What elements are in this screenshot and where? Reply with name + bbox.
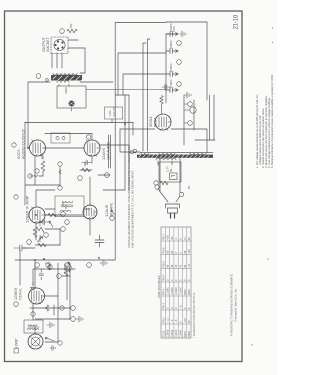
svg-text:PIN 2: PIN 2 [162, 302, 165, 309]
svg-text:SPKR: SPKR [64, 87, 68, 94]
svg-text:455: 455 [65, 204, 68, 209]
svg-text:35AC: 35AC [188, 289, 191, 295]
svg-text:5. Nominal tolerance of compon: 5. Nominal tolerance of component values… [270, 74, 274, 168]
svg-text:250: 250 [61, 201, 65, 206]
svg-text:PIN 5: PIN 5 [162, 261, 165, 268]
svg-text:35W4: 35W4 [148, 116, 153, 127]
svg-text:3.3MEG: 3.3MEG [63, 263, 67, 273]
svg-text:−6.5: −6.5 [184, 318, 187, 323]
svg-text:470K: 470K [40, 153, 44, 159]
svg-text:12.6AC: 12.6AC [175, 287, 178, 295]
svg-text:12AU6: 12AU6 [104, 204, 109, 217]
svg-text:12.6AC: 12.6AC [180, 287, 183, 295]
svg-text:VOLTAGE READINGS TAKEN WITH VT: VOLTAGE READINGS TAKEN WITH VTVM FROM SO… [127, 145, 131, 248]
svg-text:TUBE: TUBE [162, 330, 165, 337]
svg-text:560: 560 [69, 23, 73, 28]
svg-text:LOOP: LOOP [15, 338, 19, 348]
svg-text:50AC: 50AC [184, 289, 187, 295]
svg-text:PIN 1: PIN 1 [162, 316, 165, 323]
svg-text:PIN 4: PIN 4 [162, 274, 165, 281]
svg-text:SOCKET: SOCKET [46, 36, 50, 52]
svg-text:−6.8: −6.8 [167, 235, 170, 240]
svg-text:105: 105 [188, 249, 191, 254]
svg-text:12.6AC: 12.6AC [171, 287, 174, 295]
svg-text:† MEASURED FROM SOCKET PIN TO: † MEASURED FROM SOCKET PIN TO B− [193, 291, 196, 338]
svg-text:CONV.: CONV. [18, 288, 23, 300]
svg-text:35W4: 35W4 [188, 330, 191, 337]
svg-text:21-10: 21-10 [233, 14, 239, 29]
svg-text:12AV6: 12AV6 [101, 148, 106, 160]
svg-text:12BA6: 12BA6 [171, 329, 174, 337]
svg-text:10MFD: 10MFD [169, 79, 173, 88]
svg-text:150V: 150V [172, 26, 176, 32]
svg-text:60−: 60− [187, 184, 191, 189]
svg-text:IF AMP: IF AMP [25, 195, 30, 209]
svg-text:PIN 7: PIN 7 [162, 233, 165, 240]
svg-text:©Howard W. Sams & Co., Inc.: ©Howard W. Sams & Co., Inc. [234, 288, 237, 322]
svg-text:A PHOTOFACT STANDARD NOTATION: A PHOTOFACT STANDARD NOTATION SCHEMATIC [230, 274, 234, 337]
svg-text:PIN 6: PIN 6 [162, 247, 165, 254]
svg-text:60∼: 60∼ [169, 166, 173, 172]
svg-text:12AV6: 12AV6 [180, 329, 183, 337]
svg-text:12.6AC: 12.6AC [167, 287, 170, 295]
svg-text:PIN 3: PIN 3 [162, 288, 165, 295]
svg-text:TUBE VOLTAGES: TUBE VOLTAGES [157, 275, 161, 298]
svg-text:30MFD: 30MFD [169, 40, 173, 49]
svg-text:12BA6: 12BA6 [25, 210, 30, 223]
svg-text:20MFD: 20MFD [169, 63, 173, 72]
svg-text:AUDIO OUTPUT: AUDIO OUTPUT [21, 128, 26, 159]
svg-text:1ST AUDIO: 1ST AUDIO [107, 142, 111, 160]
svg-text:50C5: 50C5 [184, 331, 187, 337]
svg-text:LINE VOLTAGE MAINTAINED AT 117: LINE VOLTAGE MAINTAINED AT 117 V.A.C. NO… [130, 170, 134, 248]
svg-text:117: 117 [188, 263, 191, 267]
svg-text:22K: 22K [44, 262, 48, 267]
svg-text:117V: 117V [157, 183, 161, 189]
svg-text:RES 150: RES 150 [113, 106, 116, 116]
svg-text:−1.2: −1.2 [167, 318, 170, 323]
svg-text:RECT.: RECT. [154, 117, 158, 127]
svg-text:12AU6: 12AU6 [175, 329, 178, 337]
svg-text:12BE6: 12BE6 [167, 329, 170, 337]
svg-text:470K: 470K [38, 220, 42, 226]
svg-text:FUSE: FUSE [109, 110, 112, 117]
